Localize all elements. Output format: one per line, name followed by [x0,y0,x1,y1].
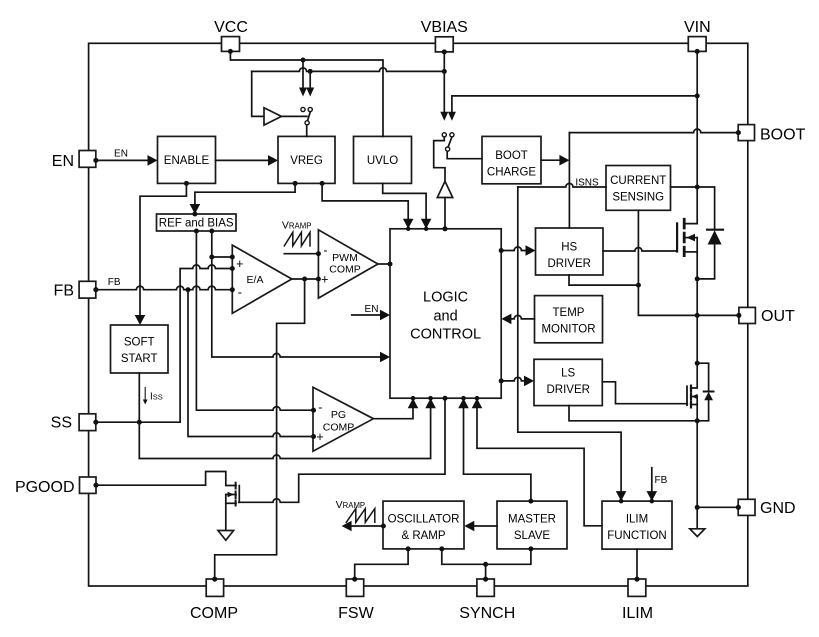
arrowhead PG COMP into LOGIC [408,398,419,408]
wire FB branch to PG COMP plus (hop at 276.6) [188,290,314,437]
LS MOSFET Q2 body lead and arrow [691,396,698,398]
pin EN [79,151,96,168]
svg-text:-: - [323,244,327,258]
wire OUT pin [697,314,739,316]
diode D2 anode wire [697,400,708,421]
svg-text:VRAMP: VRAMP [336,499,366,511]
svg-text:VBIAS: VBIAS [421,19,468,36]
svg-text:EN: EN [365,304,379,315]
svg-text:CONTROL: CONTROL [410,326,481,342]
block LOGIC and CONTROL [390,229,501,398]
wire VCC rail to UVLO [230,51,383,136]
node E/A output [302,277,307,282]
arrowhead FB into ILIM FUNCTION [647,491,658,501]
LS MOSFET Q2 gate bar [686,386,688,405]
wire lever to VREG top [306,125,308,136]
svg-text:ISNS: ISNS [575,177,599,188]
switch pole circle [305,121,309,125]
wire VREG-switch left branch (from VCC) [302,60,304,88]
svg-text:VREG: VREG [290,155,323,167]
wire ENABLE bottom to SOFT START [140,183,186,315]
svg-text:SYNCH: SYNCH [459,605,515,622]
Iss current arrow [144,388,146,401]
node REF and BIAS left tap [194,229,199,234]
wire PG COMP output up to LOGIC bottom [373,408,413,419]
wire VBIAS pin drop [443,52,445,112]
node EN pin [93,158,98,163]
arrowhead into HS DRIVER [526,245,536,256]
switch contact circle [442,133,446,137]
node VREG-switch right tap [308,69,313,74]
wire TEMP MONITOR to LOGIC (hop at 517.8) [511,315,534,319]
node COMP pin top [212,577,217,582]
block ENABLE [158,136,216,183]
arrowhead SS line into LOGIC bottom [425,398,436,408]
PGOOD MOSFET Q3 gate bar [238,486,240,503]
wire FB stub into ILIM FUNCTION [651,468,653,492]
LS MOSFET Q2 plates [690,386,692,408]
block TEMP MONITOR [535,296,603,343]
wire LOGIC to HS DRIVER (hop at 517.8) [501,247,526,251]
wire LS source rail to ground [696,397,698,529]
wire MASTER SLAVE to LOGIC bottom [464,408,531,501]
node FB pin [93,287,98,292]
HS MOSFET Q1 source lead [684,251,697,253]
pin BOOT [738,125,754,141]
node MASTER SLAVE bottom [528,546,533,551]
arrowhead EN into LOGIC [380,310,390,321]
node SYNCH pin [483,577,488,582]
wire SS to E/A plus input (hops at x=196.4, x=211.8) [180,265,232,422]
svg-text:COMP: COMP [323,422,355,434]
pin VCC [222,37,240,52]
svg-text:UVLO: UVLO [367,155,398,167]
svg-text:DRIVER: DRIVER [546,384,589,396]
svg-text:FB: FB [108,277,121,288]
node LOGIC bottom center [443,396,448,401]
svg-text:TEMP: TEMP [553,307,585,319]
wire EN pin to ENABLE [96,159,148,161]
node LOGIC right lower [499,378,504,383]
node E/A input 2 [230,266,235,271]
svg-text:ENABLE: ENABLE [164,155,210,167]
svg-text:FB: FB [655,475,668,486]
wire VREG-switch right branch (from VBIAS) [309,71,311,87]
svg-text:BOOT: BOOT [760,127,806,144]
pin ILIM [628,579,646,596]
wire MASTER SLAVE to OSCILLATOR [474,525,497,527]
svg-text:COMP: COMP [329,264,361,276]
PGOOD MOSFET Q3 plates [235,483,237,506]
block UVLO [354,136,412,183]
wire OSC VRAMP output [351,525,383,527]
op-amp E/A error amplifier [232,245,291,313]
svg-text:CHARGE: CHARGE [487,167,537,179]
wire OSC tap to FSW pin [355,549,408,579]
PGOOD MOSFET Q3 body lead and arrow [226,494,236,496]
node LS source [695,418,700,423]
wire LS DRIVER gate path [602,382,687,404]
arrowhead VRAMP out [342,521,352,532]
node HS source / diode [695,276,700,281]
switch contact circle [450,133,454,137]
block MASTER SLAVE [497,501,567,549]
svg-text:LOGIC: LOGIC [423,290,468,306]
wire PGOOD FET gate from LOGIC (hop at 276.6) [239,398,445,502]
pin OUT [739,307,756,323]
arrowhead REF line into LOGIC [380,352,390,363]
svg-text:+: + [321,272,328,286]
block ILIM FUNCTION [602,501,672,549]
node GND rail [695,505,700,510]
wire CURRENT SENSING bottom drop to OUT node [638,210,697,315]
wire buffer input loop from VBIAS rail [252,71,264,116]
sawtooth VRAMP symbol (oscillator) [346,509,375,523]
svg-text:ILIM: ILIM [622,605,653,622]
wire VIN pin drop to HS drain [684,51,697,223]
node SYNCH junction [483,562,488,567]
node VREG left tap [293,181,298,186]
buffer U1 (VREG bypass) [264,108,281,125]
node at arrow [406,227,410,231]
switch pole circle [446,147,450,151]
node PWM plus input [316,277,321,282]
wire LS diode branch [697,363,708,391]
node PGOOD pin [93,483,98,488]
wire VREG switch lever [308,112,311,121]
diode D2 body [704,392,713,400]
wire bootstrap down to HS DRIVER [568,133,570,228]
wire BOOT rail (hop at VIN x=697.2) [569,129,738,133]
arrowhead switch VIN branch [448,112,456,121]
wire REF and BIAS to PG COMP minus (hop at x=276.6) [196,231,313,410]
node LS drain / diode [695,361,700,366]
wire ILIM FUNCTION output to LOGIC [477,408,602,526]
wire ISNS (hop at bootstrap x=569.4) [518,183,606,187]
svg-text:HS: HS [561,241,577,253]
arrowhead MASTER SLAVE into LOGIC [458,398,469,408]
pin VIN [688,37,706,52]
wire FB line to E/A minus (hops at 140, 180.1, 196.4, 211.8) [96,286,233,290]
arrowhead into OSCILLATOR [464,521,474,532]
node E/A input 1 [230,255,235,260]
svg-text:MONITOR: MONITOR [541,324,595,336]
arrowhead switch right [306,88,314,97]
block BOOT CHARGE [482,136,541,183]
node VCC-switch tap [301,58,306,63]
wire supply arrow to LOGIC top [444,198,446,229]
pin FSW [346,579,363,596]
arrowhead BOOT CHARGE to rail [559,155,569,166]
node PG COMP minus input [311,408,316,413]
svg-text:EN: EN [114,149,128,160]
svg-text:+: + [316,430,323,444]
svg-text:FUNCTION: FUNCTION [607,530,666,542]
node VIN to VBIAS-switch rail [695,93,700,98]
wire ISNS down to ILIM FUNCTION [518,187,621,492]
wire VREG to LOGIC top [322,183,408,219]
block HS DRIVER [536,228,604,275]
wire HS DRIVER gate output (hop at 638.4) [603,248,677,252]
node E/A ref junction [209,255,214,260]
pin VBIAS [435,37,453,52]
arrowhead UVLO into LOGIC [421,219,432,229]
node GND pin [736,505,741,510]
node LOGIC right [499,248,504,253]
svg-text:E/A: E/A [247,274,264,286]
svg-text:SENSING: SENSING [612,192,664,204]
node OSC left [381,524,386,529]
wire PGOOD FET source to ground [225,495,227,531]
svg-text:GND: GND [760,500,796,517]
node OSC bottom left [406,546,411,551]
wire ILIM FUNCTION to ILIM pin [636,549,638,579]
svg-text:REF and BIAS: REF and BIAS [159,218,234,230]
wire VIN rail to VBIAS/VIN switch [452,96,697,112]
svg-text:DRIVER: DRIVER [547,258,590,270]
block LS DRIVER [534,359,602,405]
wire LS DRIVER bottom tap to source node [569,406,697,421]
wire BOOT switch lever [448,137,452,147]
HS MOSFET Q1 body lead and arrow [684,237,697,239]
svg-text:PWM: PWM [332,252,358,264]
svg-text:OUT: OUT [761,308,795,325]
node at arrow [424,227,428,231]
node soft start tap [137,420,142,425]
diode D1 body [708,230,722,244]
wire VRAMP into PWM COMP minus [284,253,318,255]
wire buffer output to switch pole [281,115,307,117]
node OSC bottom right [439,546,444,551]
block CURRENT SENSING [606,166,671,211]
node MASTER SLAVE top [528,499,533,504]
wire REF and BIAS down to LOGIC line (hop at x=276.6) [212,231,381,357]
svg-text:MASTER: MASTER [508,514,556,526]
svg-text:BOOT: BOOT [495,150,528,162]
svg-text:and: and [433,309,457,325]
node ILIM pin [635,577,640,582]
node REF and BIAS top [192,212,197,217]
block OSCILLATOR & RAMP [383,501,464,549]
comparator PG COMP [313,387,373,451]
HS MOSFET Q1 gate bar [676,223,678,251]
wire HS source rail to OUT [696,238,698,316]
PGOOD MOSFET Q3 source lead [226,502,236,504]
wire SOFT START to SS line [138,373,140,422]
pin GND [738,499,755,515]
svg-text:COMP: COMP [190,605,238,622]
svg-text:SOFT: SOFT [124,336,155,348]
node VIN / CS junction [695,185,700,190]
wire E/A output to PWM COMP plus [292,278,319,280]
svg-text:VCC: VCC [214,19,248,36]
diode D1 anode wire [697,245,714,279]
wire CURRENT SENSING right tap to VIN and HS diode [671,187,715,230]
switch contact circle [301,107,305,111]
wire OUT rail down to LS drain [691,315,698,388]
node PG COMP plus input [311,434,316,439]
wire to GND pin [697,506,738,508]
LS MOSFET Q2 source lead [691,404,698,406]
node OUT pin [736,313,741,318]
svg-text:SLAVE: SLAVE [514,530,551,542]
arrowhead into SOFT START [135,315,146,325]
wire switch pole to BOOT CHARGE input [447,151,482,158]
pin SS [79,414,96,431]
svg-text:START: START [121,353,158,365]
svg-text:PG: PG [331,409,346,421]
supply arrow (open, up) into LOGIC rail [437,181,452,197]
wire LOGIC to LS DRIVER (hop at 517.8) [501,377,524,381]
wire UVLO output to LOGIC top [383,183,426,219]
wire VBIAS rail (to buffer loop, hops at x=303 and x=383) [252,68,445,72]
svg-text:FSW: FSW [338,605,374,622]
svg-text:VRAMP: VRAMP [282,219,312,231]
outer IC boundary [89,43,748,586]
node VBIAS rail junction [442,69,447,74]
node E/A minus input [230,287,235,292]
svg-text:ILIM: ILIM [626,514,648,526]
node FB branch [186,287,191,292]
arrowhead into REF and BIAS [190,204,201,214]
node ENABLE bottom [184,181,189,186]
ground symbol (PGOOD) [218,531,234,541]
svg-text:-: - [318,400,322,414]
wire HS DRIVER bottom tap to switch node [569,275,638,285]
arrowhead switch left [299,88,307,97]
wire SYNCH riser [485,564,487,578]
wire PWM COMP output to LOGIC [378,263,390,265]
svg-text:LS: LS [561,368,575,380]
sawtooth VRAMP symbol [284,232,310,246]
pin FB [79,281,96,298]
block VREG [278,136,335,183]
node REF and BIAS right tap [209,229,214,234]
svg-text:+: + [236,257,243,271]
svg-text:VIN: VIN [684,19,711,36]
wire SS pin line [96,421,180,423]
arrowhead switch VBIAS branch [440,112,448,121]
svg-text:& RAMP: & RAMP [401,530,445,542]
node PWM minus input [316,251,321,256]
block REF and BIAS [157,214,237,231]
node switch-node junction [636,283,641,288]
comparator PWM COMP [318,230,378,298]
wire OSC/MS taps to SYNCH pin [442,549,531,564]
node VREG right tap [320,181,325,186]
svg-text:FB: FB [54,283,74,300]
wire switch left contact to supply arrow [434,137,445,181]
HS MOSFET Q1 plates [683,219,686,255]
svg-text:EN: EN [52,153,74,170]
svg-text:ISS: ISS [150,391,163,402]
node OUT rail [695,313,700,318]
pin COMP [206,579,223,596]
pin PGOOD [80,477,97,493]
block SOFT START [111,325,169,373]
svg-text:-: - [238,286,242,300]
wire PGOOD pin to FET drain (jog) [96,472,236,486]
arrowhead VREG into LOGIC [403,219,414,229]
wire SS down to LOGIC bottom (hop at 276.6) [139,408,430,459]
node BOOT pin [736,130,741,135]
svg-text:OSCILLATOR: OSCILLATOR [388,514,460,526]
wire ENABLE to VREG [216,159,269,161]
wire EN stub into LOGIC [352,314,381,316]
ground symbol (power ground) [690,529,705,537]
switch contact circle [308,107,312,111]
arrowhead ILIM into LOGIC bottom [472,398,483,408]
diode D2 cathode bar [704,391,714,393]
node SS pin [93,420,98,425]
svg-text:SS: SS [51,414,72,431]
node LOGIC supply [443,226,448,231]
svg-text:PGOOD: PGOOD [15,479,75,496]
arrowhead into ENABLE [148,155,158,166]
node PWM output at LOGIC [388,262,393,267]
wire E/A output loop down to COMP pin [215,279,305,579]
wire stub to E/A input 1 [212,256,233,258]
arrowhead into ILIM FUNCTION top [616,491,627,501]
node VIN pin [695,49,700,54]
node FSW pin [352,577,357,582]
arrowhead into VREG [268,155,278,166]
pin SYNCH [477,579,494,596]
diode D1 cathode bar [707,229,723,231]
wire VREG to REF and BIAS [195,183,295,204]
arrowhead into LS DRIVER [524,376,534,387]
svg-text:CURRENT: CURRENT [610,175,666,187]
wire BOOT CHARGE output [541,159,560,161]
arrowhead TEMP into LOGIC [501,314,511,325]
